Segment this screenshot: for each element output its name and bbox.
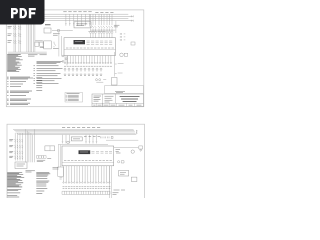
node sensor tap 2 <box>115 72 123 74</box>
motor starter contacts <box>90 26 113 31</box>
circuit breaker Q7 <box>14 156 23 159</box>
label X12 <box>114 189 126 191</box>
marks bottom right sheet 2 <box>113 193 119 195</box>
wire control drop 1 <box>58 32 60 56</box>
junction box X5 <box>112 78 118 86</box>
terminal block X1 <box>44 28 51 33</box>
label badge corner ref <box>45 24 51 26</box>
terminal circles row <box>64 62 111 63</box>
label J2 <box>120 173 126 175</box>
terminal circles sheet 2 <box>63 182 110 183</box>
relay coil K2 <box>40 42 44 46</box>
wire control feed sheet 2 <box>58 144 108 146</box>
terminal strip X11 <box>37 156 39 159</box>
terminal box X10 <box>15 162 27 169</box>
relay coil K1 <box>35 42 39 46</box>
drawing number cell <box>105 96 114 102</box>
revision header <box>67 93 80 95</box>
wire right feed sheet 2 <box>106 140 138 148</box>
bus end terminal marks <box>131 15 133 21</box>
legend symbol list sheet 2 <box>7 172 24 187</box>
wire feeder pair 1 sheet 2 <box>15 133 17 161</box>
power supply T3 <box>71 137 82 141</box>
legend symbol list <box>7 55 23 72</box>
general notes block <box>7 91 32 105</box>
wire L2 phase bus <box>14 15 133 17</box>
aux contact K3.1 <box>54 42 56 48</box>
wire L1 phase bus <box>14 13 128 15</box>
legend abbreviation block <box>7 77 33 87</box>
terminal strip X12 <box>62 191 110 194</box>
revision rows <box>66 95 79 100</box>
T2 divider <box>49 146 51 151</box>
notes right column sheet 2 <box>53 168 59 170</box>
wire 24V feed <box>52 29 115 31</box>
PLC channel label grid <box>87 41 113 45</box>
notes header <box>28 55 47 56</box>
PLC terminal rail <box>64 48 116 50</box>
circuit breaker Q3 <box>13 40 21 43</box>
pilot lamp H2 <box>67 141 69 143</box>
sheet 2 border frame <box>7 124 145 221</box>
numbered notes sheet 2 <box>36 173 50 194</box>
fuse marks sheet 2 <box>62 142 97 144</box>
indicator lamp row <box>64 68 102 71</box>
wire K4 riser <box>115 21 117 33</box>
label sheet2 top refs <box>62 126 100 128</box>
wire motor drop <box>114 52 116 77</box>
wire L3 phase bus <box>14 18 128 20</box>
drawing title text <box>120 97 140 102</box>
label coil values <box>35 41 44 48</box>
PLC label grid sheet 2 <box>92 151 113 153</box>
motor M1 <box>120 53 124 57</box>
wire PE drops sheet 2 <box>59 145 61 167</box>
wire N neutral bus <box>14 20 133 22</box>
PLC terminal rail sheet 2 <box>62 161 114 163</box>
PLC controller U2 <box>62 146 114 166</box>
sheet 1 border frame <box>6 10 144 107</box>
wire feeder pair 2 sheet 2 <box>20 133 22 161</box>
title bottom rail <box>92 102 144 104</box>
power supply T1 <box>74 22 91 28</box>
circuit breaker Q5 <box>14 145 23 148</box>
wire starter collector <box>88 31 106 33</box>
title bottom cells <box>97 103 135 106</box>
fuse group F1 <box>65 24 90 26</box>
junction box J2 <box>119 171 129 177</box>
wire bundle risers sheet 2 <box>25 129 34 162</box>
pilot lamp H1 <box>57 29 60 32</box>
ground cluster PE <box>62 55 67 65</box>
PLC nameplate dark label sheet 2 <box>79 150 91 154</box>
CT symbols row <box>96 79 107 83</box>
sensor cluster right sheet 2 <box>116 150 121 154</box>
circuit breaker Q4 <box>14 139 23 142</box>
label lamp row <box>64 74 102 75</box>
label top row refs <box>63 11 113 14</box>
revision table <box>65 93 83 103</box>
connector J1 <box>139 146 143 152</box>
approval box <box>105 86 144 94</box>
wire tap group right <box>91 14 113 25</box>
brake resistor R1 <box>124 53 128 56</box>
company logo cell <box>94 96 102 101</box>
pin ticks K3 <box>43 42 44 48</box>
wire taps sheet 2 <box>63 135 97 142</box>
wire output comb <box>65 56 111 63</box>
label starter refs <box>114 25 120 27</box>
PDF badge <box>0 0 45 25</box>
PLC controller U1 <box>64 38 116 56</box>
label X11 marks <box>37 159 51 162</box>
PLC nameplate dark label <box>74 40 86 44</box>
label feeder designators <box>8 27 12 43</box>
aux block K5 <box>131 42 135 45</box>
marks right of box sheet 2 <box>118 161 125 163</box>
legend header sheet 2 <box>26 171 35 172</box>
circuit breaker Q1 <box>13 26 21 29</box>
nameplate text <box>75 40 83 42</box>
relay K3 <box>44 41 52 49</box>
contact cluster right sheet 2 <box>101 136 114 138</box>
label T1 <box>76 24 87 26</box>
bottom cells text <box>93 104 141 106</box>
PDF badge label <box>11 8 36 18</box>
nameplate text sheet 2 <box>80 151 88 153</box>
label feeder designators sheet 2 <box>9 139 13 157</box>
transformer T2 <box>45 146 55 151</box>
title block <box>92 94 144 107</box>
legend extra lines sheet 2 <box>7 189 21 197</box>
strip ticks X12 <box>62 191 110 194</box>
wire control drop 2 <box>61 36 63 56</box>
wire feeder pair 1 <box>14 21 16 52</box>
overload relay row <box>90 31 113 33</box>
PLC terminal text row <box>66 47 114 49</box>
bus end marks sheet 2 <box>136 130 137 134</box>
numbered notes list <box>34 61 63 83</box>
label X1 <box>53 34 60 35</box>
PLC terminal text row sheet 2 <box>64 160 112 162</box>
wire drops right sheet 2 <box>109 166 111 198</box>
circuit breaker Q6 <box>14 151 23 154</box>
label output row <box>64 65 112 67</box>
schematic page 1 <box>6 10 144 107</box>
label T3 <box>73 138 80 140</box>
wire bundle risers <box>27 14 35 52</box>
junction box J3 <box>131 177 137 181</box>
wire feeder pair 2 <box>19 21 21 52</box>
wire starter drops to PLC <box>91 33 113 38</box>
label X10 rows <box>17 164 26 166</box>
title divider 1 <box>102 94 104 107</box>
sheet 2 phase bus bundle <box>13 129 136 134</box>
approval text <box>115 91 125 92</box>
ground cluster PE sheet 2 <box>58 167 64 179</box>
title divider 2 <box>115 94 117 103</box>
contact block K4 <box>120 33 125 41</box>
wire output comb sheet 2 <box>64 166 110 182</box>
circuit breaker Q2 <box>13 33 21 36</box>
schematic page 2 <box>7 124 145 221</box>
notes continuation column <box>36 78 42 91</box>
label K3 <box>53 47 59 49</box>
label mid refs sheet 2 <box>84 135 100 137</box>
wire control bus <box>8 52 47 53</box>
wire tap group center <box>66 14 90 23</box>
label comb row sheet 2 <box>63 187 111 189</box>
node sensor tap 1 <box>115 63 124 66</box>
sensor circle B1 <box>131 150 134 153</box>
